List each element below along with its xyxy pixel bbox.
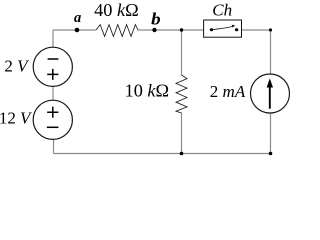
V2 minus sign: [47, 126, 59, 128]
node b dot: [152, 28, 156, 32]
wire middle branch upper (node b branch to 10k): [181, 30, 183, 75]
switch right contact dot: [235, 28, 239, 31]
svg-text:10 kΩ: 10 kΩ: [125, 81, 169, 101]
junction dot bottom right: [269, 152, 273, 156]
wire left branch bottom (12V to bottom rail): [53, 139, 55, 153]
wire top rail left segment: [53, 29, 96, 31]
resistor R1 40k zigzag: [96, 25, 138, 37]
svg-text:Ch: Ch: [212, 1, 232, 20]
voltage source V1 2V circle: [33, 47, 72, 86]
V1 plus sign: [47, 69, 58, 80]
wire middle branch lower: [181, 113, 183, 154]
svg-text:2 mA: 2 mA: [210, 82, 246, 101]
wire right branch upper: [270, 30, 272, 75]
switch Ch box: [204, 20, 242, 37]
wire top-left vertical from 2V source to top rail: [52, 30, 54, 48]
wire bottom rail: [54, 153, 271, 155]
svg-text:b: b: [151, 9, 161, 28]
wire top rail middle segment (resistor to switch box): [138, 29, 211, 31]
switch left contact dot: [210, 28, 214, 31]
junction dot top-right corner: [269, 28, 272, 31]
svg-text:12 V: 12 V: [0, 109, 33, 128]
current source I1 circle: [251, 74, 290, 113]
junction dot bottom middle: [180, 152, 184, 156]
V1 minus sign: [48, 58, 59, 60]
resistor R2 10k vertical zigzag: [176, 75, 187, 113]
svg-text:2 V: 2 V: [4, 57, 30, 76]
svg-text:a: a: [74, 10, 81, 26]
I1 arrow up: [269, 86, 271, 109]
svg-text:40 kΩ: 40 kΩ: [94, 0, 139, 20]
wire right branch lower: [270, 113, 272, 154]
switch blade with arrowhead: [213, 26, 233, 29]
wire top rail right segment (switch to top-right corner): [237, 29, 271, 31]
junction dot top middle: [180, 28, 183, 31]
wire between voltage sources: [52, 86, 54, 100]
node a dot: [75, 28, 80, 33]
voltage source V2 12V circle: [33, 100, 72, 139]
V2 plus sign: [47, 107, 58, 118]
